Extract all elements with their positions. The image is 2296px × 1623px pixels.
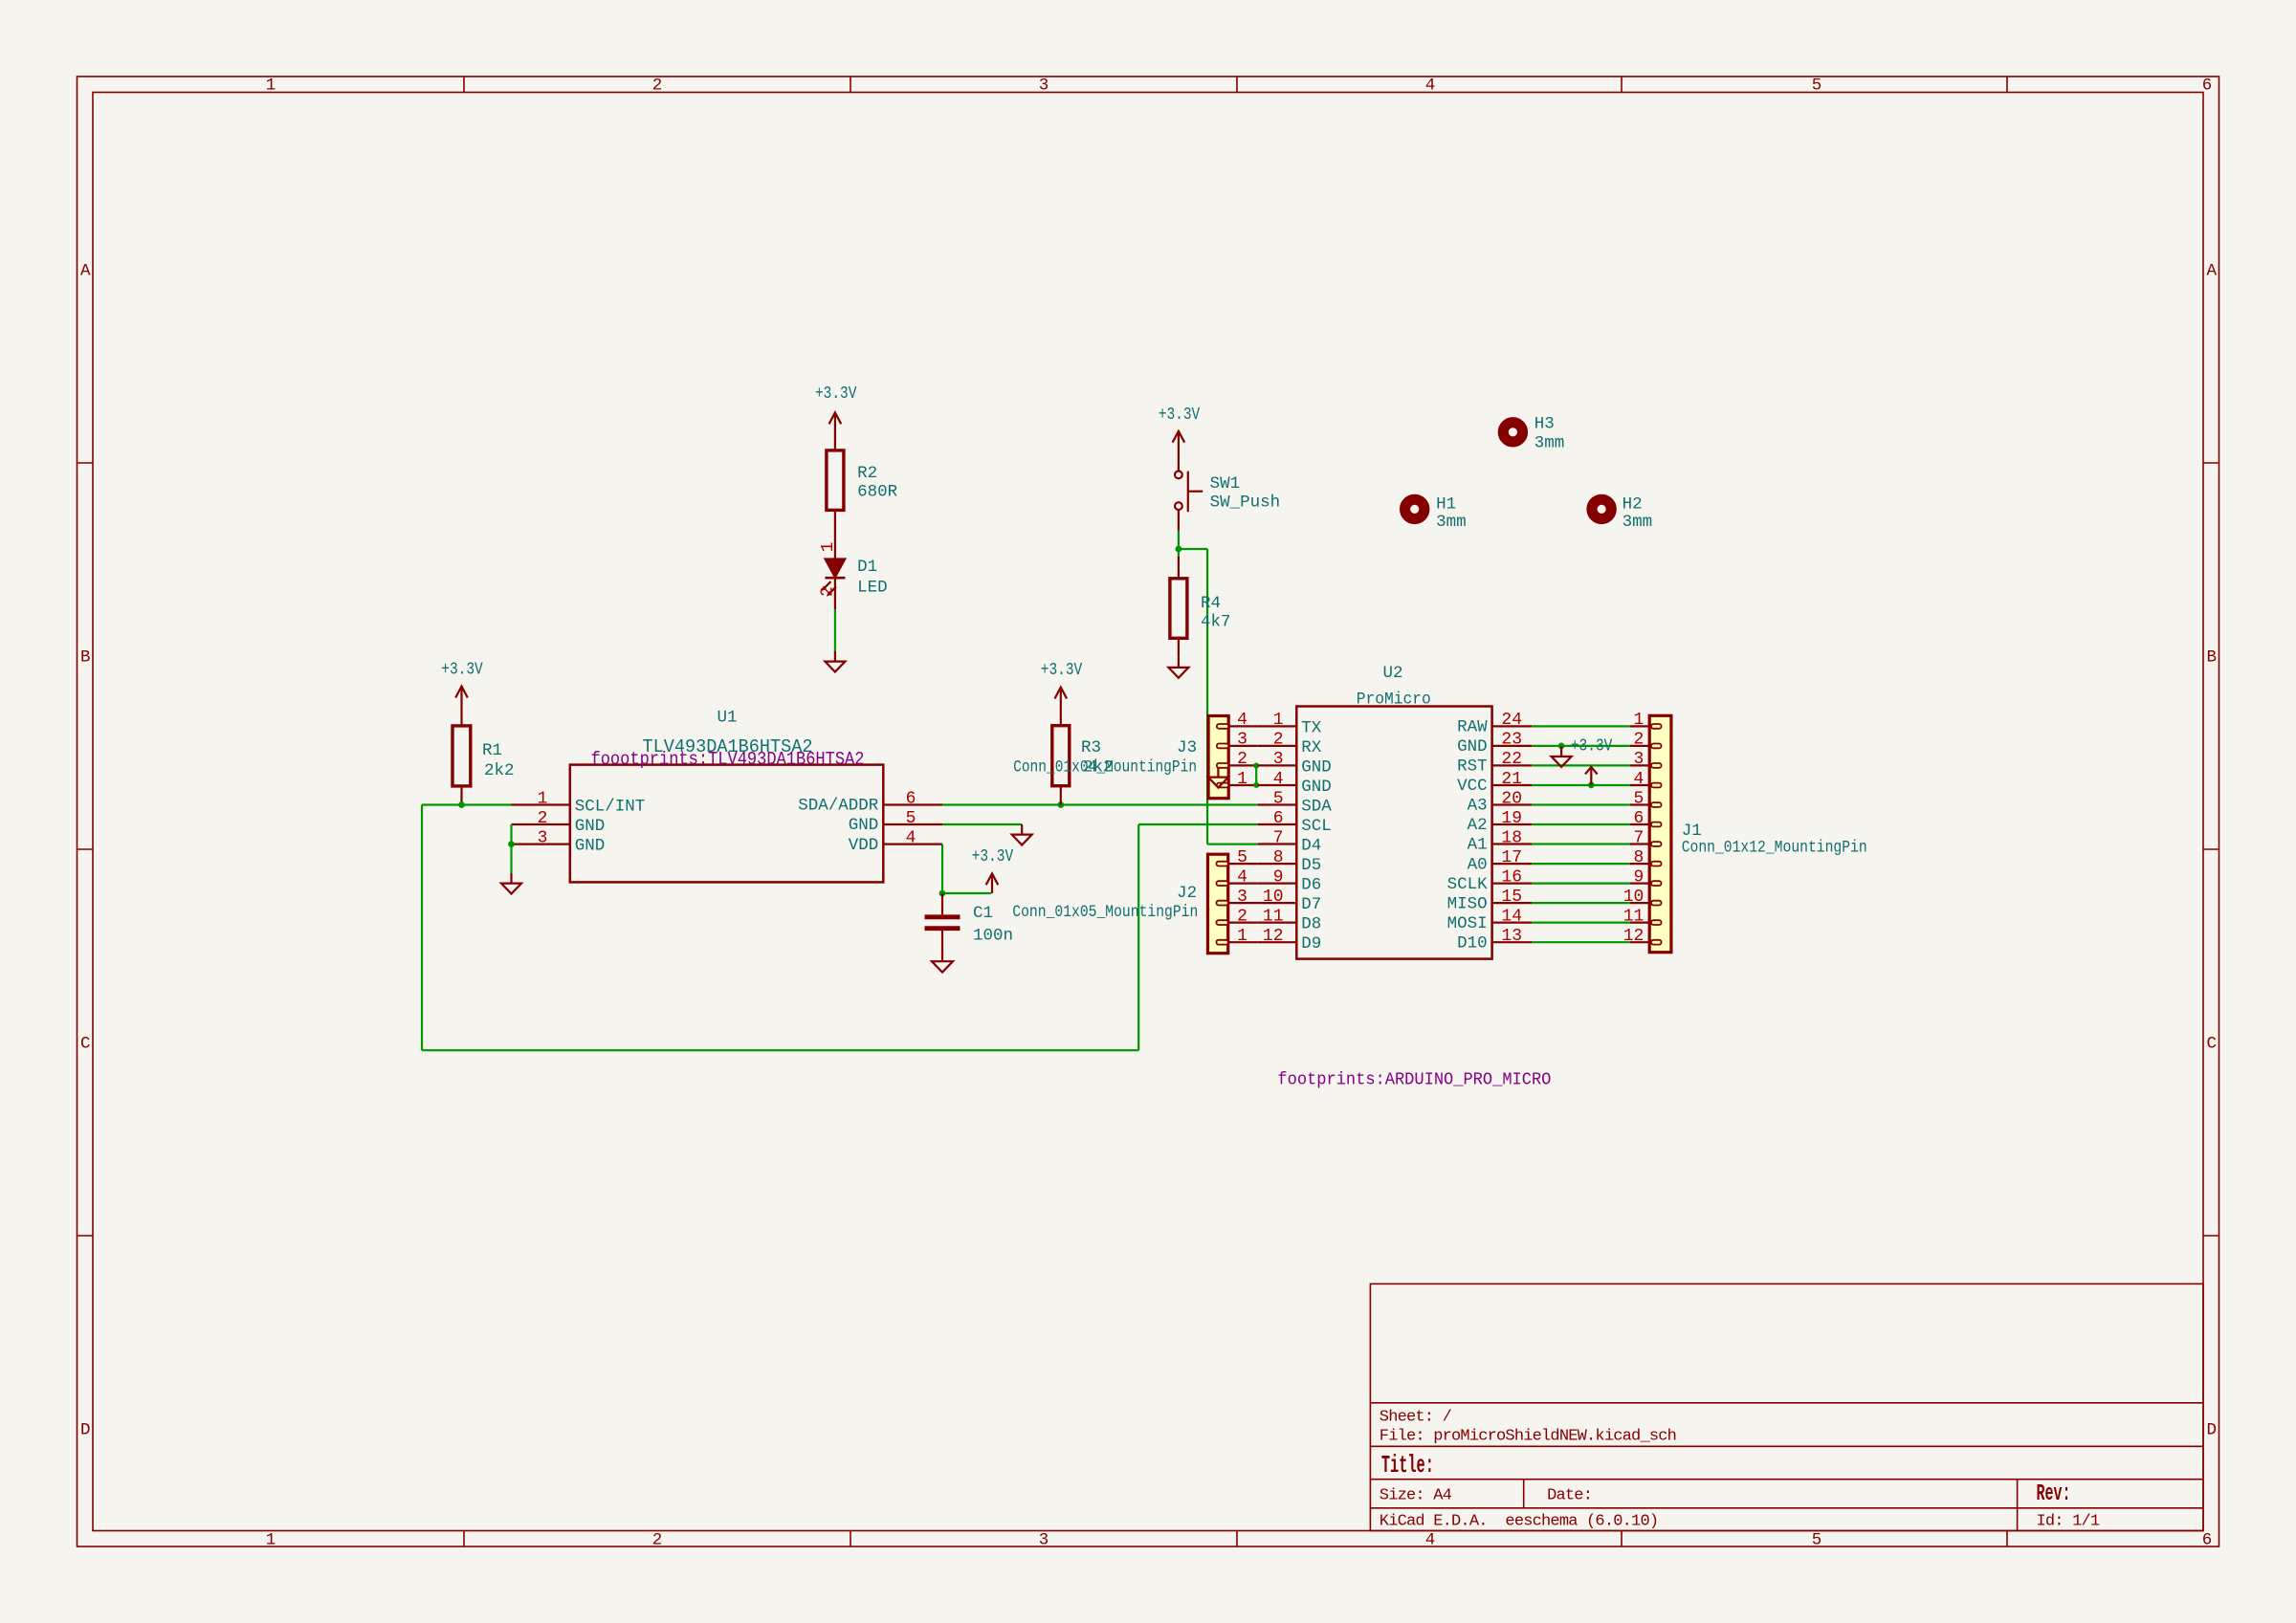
wire SCL horizontal at R1 xyxy=(422,803,512,805)
svg-text:TX: TX xyxy=(1301,718,1322,737)
svg-text:10: 10 xyxy=(1263,888,1284,907)
svg-text:D10: D10 xyxy=(1457,933,1488,953)
svg-text:4: 4 xyxy=(1425,1531,1436,1550)
svg-text:Sheet: /: Sheet: / xyxy=(1380,1409,1452,1427)
svg-text:18: 18 xyxy=(1501,828,1522,847)
svg-text:KiCad E.D.A. eeschema (6.0.10: KiCad E.D.A. eeschema (6.0.10) xyxy=(1380,1513,1658,1531)
svg-text:SW1: SW1 xyxy=(1210,474,1241,493)
title block xyxy=(1370,1283,2203,1530)
U1 pin 5 GND xyxy=(849,809,942,835)
svg-text:ProMicro: ProMicro xyxy=(1357,691,1431,710)
svg-text:D6: D6 xyxy=(1301,876,1321,895)
svg-text:A: A xyxy=(2206,262,2217,281)
J2 pin 4 xyxy=(1228,867,1258,887)
wire U1 gnd stub xyxy=(510,844,512,873)
U2 pin 20 A3 xyxy=(1468,789,1533,815)
svg-text:+3.3V: +3.3V xyxy=(972,847,1014,866)
svg-text:A0: A0 xyxy=(1468,855,1488,874)
svg-text:4: 4 xyxy=(1273,770,1284,789)
power +3.3V (R1) xyxy=(441,661,483,726)
svg-text:H2: H2 xyxy=(1623,495,1643,515)
svg-text:8: 8 xyxy=(1633,848,1644,867)
svg-text:5: 5 xyxy=(1237,848,1247,867)
switch SW1 SW_Push xyxy=(1175,472,1280,531)
ground net GND xyxy=(1552,746,1572,767)
wire U2 to J1 row 6 xyxy=(1532,823,1630,825)
svg-text:4: 4 xyxy=(1237,867,1247,887)
svg-text:15: 15 xyxy=(1501,888,1522,907)
svg-text:A3: A3 xyxy=(1468,797,1488,816)
J1 pin 10 xyxy=(1623,888,1650,907)
wire VDD to arrow xyxy=(942,892,991,894)
svg-text:21: 21 xyxy=(1501,770,1522,789)
svg-text:3mm: 3mm xyxy=(1436,513,1467,532)
svg-text:J2: J2 xyxy=(1177,884,1197,903)
U2 pin 1 TX xyxy=(1258,711,1322,737)
svg-text:680R: 680R xyxy=(857,483,898,502)
svg-text:2: 2 xyxy=(1237,750,1247,769)
svg-text:1: 1 xyxy=(819,542,838,553)
U2 pin 5 SDA xyxy=(1258,789,1333,816)
svg-text:4k7: 4k7 xyxy=(1201,613,1231,632)
svg-text:D4: D4 xyxy=(1301,837,1321,856)
U2 pin 4 GND xyxy=(1258,770,1332,797)
U2 pin 23 GND xyxy=(1457,731,1532,757)
J1 pin 11 xyxy=(1623,907,1650,926)
capacitor C1 xyxy=(925,893,1014,961)
op-amp U1 body xyxy=(570,709,884,883)
wire SCL to U2 xyxy=(1138,823,1258,825)
wire SCL right vertical xyxy=(1137,824,1139,1050)
svg-text:2k2: 2k2 xyxy=(484,761,515,780)
J1 pin 9 xyxy=(1630,867,1649,887)
wire U2 to J1 row 1 xyxy=(1532,725,1630,727)
U2 pin 14 MOSI xyxy=(1447,907,1533,932)
svg-text:4: 4 xyxy=(1633,770,1644,789)
svg-text:2: 2 xyxy=(1237,907,1247,926)
svg-text:9: 9 xyxy=(1633,867,1644,887)
resistor R2 xyxy=(827,450,898,559)
svg-text:D5: D5 xyxy=(1301,856,1321,875)
svg-text:A: A xyxy=(80,262,91,281)
connector J1 body xyxy=(1649,715,1867,952)
svg-text:B: B xyxy=(2206,648,2217,668)
U2 pin 16 SCLK xyxy=(1447,867,1533,893)
svg-text:+3.3V: +3.3V xyxy=(1571,737,1613,757)
svg-text:2: 2 xyxy=(1273,731,1284,750)
J2 pin 5 xyxy=(1228,848,1258,867)
svg-text:LED: LED xyxy=(857,579,888,598)
connector J3 body xyxy=(1013,716,1228,799)
svg-text:C: C xyxy=(2206,1035,2217,1054)
svg-text:1: 1 xyxy=(266,77,276,96)
J1 pin 1 xyxy=(1630,711,1649,730)
svg-text:5: 5 xyxy=(1633,789,1644,808)
svg-text:C1: C1 xyxy=(973,904,993,923)
ground R4 xyxy=(1168,657,1188,678)
svg-text:SCLK: SCLK xyxy=(1447,875,1489,894)
svg-text:VCC: VCC xyxy=(1457,777,1488,796)
svg-text:100n: 100n xyxy=(973,927,1013,946)
J3 pin 1 xyxy=(1228,770,1258,789)
svg-text:1: 1 xyxy=(1237,770,1247,789)
J1 pin 12 xyxy=(1623,927,1650,946)
power +3.3V (SW1) xyxy=(1159,406,1201,471)
svg-text:23: 23 xyxy=(1501,731,1522,750)
U2 pin 18 A1 xyxy=(1468,828,1533,854)
svg-text:3: 3 xyxy=(1633,750,1644,769)
svg-text:GND: GND xyxy=(849,816,879,835)
J1 pin 8 xyxy=(1630,848,1649,867)
svg-text:3: 3 xyxy=(1039,77,1049,96)
svg-text:7: 7 xyxy=(1633,828,1644,847)
wire U1 pin5 gnd xyxy=(942,823,1022,825)
field footprint U2 xyxy=(1277,1071,1551,1090)
svg-text:SCL/INT: SCL/INT xyxy=(575,798,646,817)
wire SCL bottom horizontal xyxy=(422,1049,1138,1051)
svg-text:7: 7 xyxy=(1273,828,1284,847)
J2 pin 2 xyxy=(1228,907,1258,926)
svg-text:MISO: MISO xyxy=(1447,894,1488,913)
U2 pin 2 RX xyxy=(1258,731,1322,757)
svg-text:2: 2 xyxy=(652,1531,663,1550)
wire U2 to J1 row 11 xyxy=(1532,921,1630,923)
wire D4 vertical xyxy=(1206,549,1208,844)
wire D1 to gnd xyxy=(834,609,836,651)
svg-text:RST: RST xyxy=(1457,757,1488,777)
wire U2 to J1 row 9 xyxy=(1532,882,1630,884)
svg-text:3mm: 3mm xyxy=(1534,434,1565,453)
svg-text:11: 11 xyxy=(1263,907,1284,926)
svg-text:H3: H3 xyxy=(1534,415,1555,434)
wire U1 pin2-pin3 xyxy=(510,824,512,844)
wire D4 to U2 xyxy=(1207,843,1258,844)
junction VDD/C1 xyxy=(939,890,946,897)
svg-text:SDA: SDA xyxy=(1301,798,1332,817)
svg-text:12: 12 xyxy=(1623,927,1645,946)
svg-text:RX: RX xyxy=(1301,738,1322,757)
svg-text:8: 8 xyxy=(1273,848,1284,867)
junction VCC net xyxy=(1588,782,1595,789)
svg-text:+3.3V: +3.3V xyxy=(815,384,857,404)
wire U2 to J1 row 12 xyxy=(1532,941,1630,943)
svg-text:1: 1 xyxy=(538,789,548,808)
svg-text:SW_Push: SW_Push xyxy=(1210,493,1281,513)
U1 pin 1 SCL/INT xyxy=(512,789,646,816)
U2 pin 10 D7 xyxy=(1258,888,1322,914)
svg-text:5: 5 xyxy=(1812,77,1822,96)
power +3.3V (R2) xyxy=(815,384,857,450)
svg-text:Conn_01x04_MountingPin: Conn_01x04_MountingPin xyxy=(1013,758,1197,778)
ground U1 right xyxy=(1012,824,1032,845)
U2 pin 24 RAW xyxy=(1457,711,1532,736)
J2 pin 1 xyxy=(1228,927,1258,946)
ground C1 xyxy=(932,961,953,972)
svg-text:3: 3 xyxy=(1273,750,1284,769)
svg-text:R2: R2 xyxy=(857,464,877,483)
power +3.3V (VCC) xyxy=(1571,737,1613,785)
U2 pin 17 A0 xyxy=(1468,848,1533,874)
J1 pin 7 xyxy=(1630,828,1649,847)
svg-text:6: 6 xyxy=(2202,77,2213,96)
svg-text:GND: GND xyxy=(575,837,606,856)
svg-text:Conn_01x05_MountingPin: Conn_01x05_MountingPin xyxy=(1012,903,1198,922)
wire U2 to J1 row 2 xyxy=(1532,745,1630,747)
wire U2 to J1 row 5 xyxy=(1532,803,1630,805)
ground D1 xyxy=(825,651,845,672)
svg-text:1: 1 xyxy=(1237,927,1247,946)
U1 pin 3 GND xyxy=(512,828,606,855)
svg-text:6: 6 xyxy=(1633,809,1644,828)
svg-text:File: proMicroShieldNEW.kicad_: File: proMicroShieldNEW.kicad_sch xyxy=(1380,1428,1676,1446)
svg-text:3: 3 xyxy=(1237,731,1247,750)
svg-text:+3.3V: +3.3V xyxy=(441,661,483,680)
svg-text:2: 2 xyxy=(538,809,548,828)
svg-text:D1: D1 xyxy=(857,558,877,577)
svg-text:R1: R1 xyxy=(482,741,502,760)
svg-text:H1: H1 xyxy=(1436,495,1456,515)
svg-text:1: 1 xyxy=(1633,711,1644,730)
svg-text:SCL: SCL xyxy=(1301,817,1332,836)
mounting hole H2 xyxy=(1592,495,1652,533)
svg-text:D: D xyxy=(80,1421,91,1440)
J1 pin 5 xyxy=(1630,789,1649,808)
wire SCL left vertical xyxy=(421,805,423,1051)
wire junction to R4 xyxy=(1178,549,1180,556)
ground U1 left xyxy=(501,873,521,894)
diode D1 LED xyxy=(819,542,888,610)
wire J3 gnd link xyxy=(1255,766,1257,785)
svg-text:4: 4 xyxy=(1425,77,1436,96)
wire SDA xyxy=(942,803,1258,805)
svg-text:17: 17 xyxy=(1501,848,1522,867)
svg-text:Id: 1/1: Id: 1/1 xyxy=(2037,1512,2100,1530)
svg-text:Date:: Date: xyxy=(1547,1486,1592,1504)
U2 pin 11 D8 xyxy=(1258,907,1322,933)
junction J3 gnd b xyxy=(1253,782,1259,788)
U2 pin 12 D9 xyxy=(1258,927,1322,954)
svg-text:C: C xyxy=(80,1035,91,1054)
svg-text:10: 10 xyxy=(1623,888,1645,907)
U2 pin 22 RST xyxy=(1457,750,1532,776)
svg-text:A1: A1 xyxy=(1468,836,1488,855)
svg-text:footprints:ARDUINO_PRO_MICRO: footprints:ARDUINO_PRO_MICRO xyxy=(1277,1071,1551,1090)
svg-text:R3: R3 xyxy=(1081,738,1101,757)
svg-text:6: 6 xyxy=(906,789,916,808)
svg-text:1: 1 xyxy=(266,1531,276,1550)
svg-text:RAW: RAW xyxy=(1457,718,1488,737)
svg-text:D7: D7 xyxy=(1301,895,1321,914)
wire U2 to J1 row 7 xyxy=(1532,843,1630,844)
svg-text:3: 3 xyxy=(1039,1531,1049,1550)
U1 pin 6 SDA/ADDR xyxy=(798,789,942,815)
svg-text:1: 1 xyxy=(1273,711,1284,730)
svg-text:J3: J3 xyxy=(1177,738,1197,757)
svg-text:4: 4 xyxy=(906,828,916,847)
svg-text:Title:: Title: xyxy=(1381,1451,1434,1480)
svg-text:MOSI: MOSI xyxy=(1447,914,1488,933)
svg-text:D: D xyxy=(2206,1421,2217,1440)
wire U2 to J1 row 8 xyxy=(1532,863,1630,865)
svg-text:GND: GND xyxy=(575,817,606,836)
svg-text:D8: D8 xyxy=(1301,915,1321,934)
resistor R4 xyxy=(1170,556,1231,657)
svg-text:5: 5 xyxy=(906,809,916,828)
svg-text:4: 4 xyxy=(1237,711,1247,730)
svg-text:U1: U1 xyxy=(717,709,737,728)
power +3.3V (R3) xyxy=(1041,661,1083,726)
svg-text:foootprints:TLV493DA1B6HTSA2: foootprints:TLV493DA1B6HTSA2 xyxy=(591,749,865,770)
junction SW1/R4/D4 xyxy=(1176,546,1182,553)
svg-text:20: 20 xyxy=(1501,789,1522,808)
J3 pin 2 xyxy=(1228,750,1258,769)
wire U2 to J1 row 3 xyxy=(1532,764,1630,766)
junction U1 pin3 xyxy=(508,841,515,847)
resistor R3 xyxy=(1052,726,1114,805)
svg-text:R4: R4 xyxy=(1201,594,1221,613)
svg-text:5: 5 xyxy=(1273,789,1284,808)
svg-text:Size: A4: Size: A4 xyxy=(1380,1486,1452,1504)
J1 pin 3 xyxy=(1630,750,1649,769)
microcontroller U2 ProMicro body xyxy=(1296,664,1491,959)
svg-text:B: B xyxy=(80,648,91,668)
J1 pin 4 xyxy=(1630,770,1649,789)
connector J2 body xyxy=(1012,854,1227,954)
J3 pin 4 xyxy=(1228,711,1258,730)
resistor R1 xyxy=(453,726,515,805)
mounting hole H1 xyxy=(1405,495,1467,533)
J2 pin 3 xyxy=(1228,888,1258,907)
mounting hole H3 xyxy=(1503,415,1564,453)
svg-text:SDA/ADDR: SDA/ADDR xyxy=(798,797,879,816)
junction J3 gnd a xyxy=(1253,763,1259,769)
svg-text:GND: GND xyxy=(1457,737,1488,757)
svg-text:9: 9 xyxy=(1273,867,1284,887)
svg-text:5: 5 xyxy=(1812,1531,1822,1550)
svg-text:+3.3V: +3.3V xyxy=(1041,661,1083,680)
svg-text:14: 14 xyxy=(1501,907,1522,926)
svg-text:+3.3V: +3.3V xyxy=(1159,406,1201,425)
U2 pin 19 A2 xyxy=(1468,809,1533,835)
U2 pin 15 MISO xyxy=(1447,888,1533,913)
svg-text:2: 2 xyxy=(652,77,663,96)
wire VDD down xyxy=(941,844,943,893)
svg-text:11: 11 xyxy=(1623,907,1645,926)
svg-text:22: 22 xyxy=(1501,750,1522,769)
U2 pin 13 D10 xyxy=(1457,927,1532,953)
svg-text:6: 6 xyxy=(1273,809,1284,828)
junction SDA/R3 xyxy=(1057,801,1064,808)
wire D4 horizontal top xyxy=(1179,548,1207,550)
svg-text:Conn_01x12_MountingPin: Conn_01x12_MountingPin xyxy=(1682,839,1867,858)
svg-text:3mm: 3mm xyxy=(1623,513,1653,532)
field footprint U1 xyxy=(591,749,865,770)
svg-text:GND: GND xyxy=(1301,757,1332,777)
U1 pin 4 VDD xyxy=(849,828,942,854)
U2 pin 3 GND xyxy=(1258,750,1332,777)
svg-text:GND: GND xyxy=(1301,778,1332,797)
J1 pin 2 xyxy=(1630,731,1649,750)
U2 pin 7 D4 xyxy=(1258,828,1322,855)
svg-text:6: 6 xyxy=(2202,1531,2213,1550)
svg-text:19: 19 xyxy=(1501,809,1522,828)
svg-text:13: 13 xyxy=(1501,927,1522,946)
wire U2 to J1 row 10 xyxy=(1532,902,1630,904)
svg-text:VDD: VDD xyxy=(849,836,879,855)
J3 pin 3 xyxy=(1228,731,1258,750)
U2 pin 21 VCC xyxy=(1457,770,1532,796)
svg-text:2: 2 xyxy=(1633,731,1644,750)
U2 pin 8 D5 xyxy=(1258,848,1322,875)
svg-text:24: 24 xyxy=(1501,711,1522,730)
svg-text:3: 3 xyxy=(538,828,548,847)
svg-text:3: 3 xyxy=(1237,888,1247,907)
power +3.3V (VDD) xyxy=(972,847,1014,893)
svg-text:D9: D9 xyxy=(1301,934,1321,954)
junction GND net xyxy=(1558,743,1565,750)
svg-text:12: 12 xyxy=(1263,927,1284,946)
ground J3 xyxy=(1208,767,1228,788)
junction R1/SCL xyxy=(458,801,465,808)
svg-text:U2: U2 xyxy=(1382,664,1402,683)
svg-text:16: 16 xyxy=(1501,867,1522,887)
wire U2 to J1 row 4 xyxy=(1532,784,1630,786)
svg-text:A2: A2 xyxy=(1468,816,1488,835)
svg-text:Rev:: Rev: xyxy=(2037,1481,2071,1507)
U1 pin 2 GND xyxy=(512,809,606,836)
U2 pin 9 D6 xyxy=(1258,867,1322,894)
U2 pin 6 SCL xyxy=(1258,809,1332,836)
J1 pin 6 xyxy=(1630,809,1649,828)
wire SW1 to junction xyxy=(1178,531,1180,549)
